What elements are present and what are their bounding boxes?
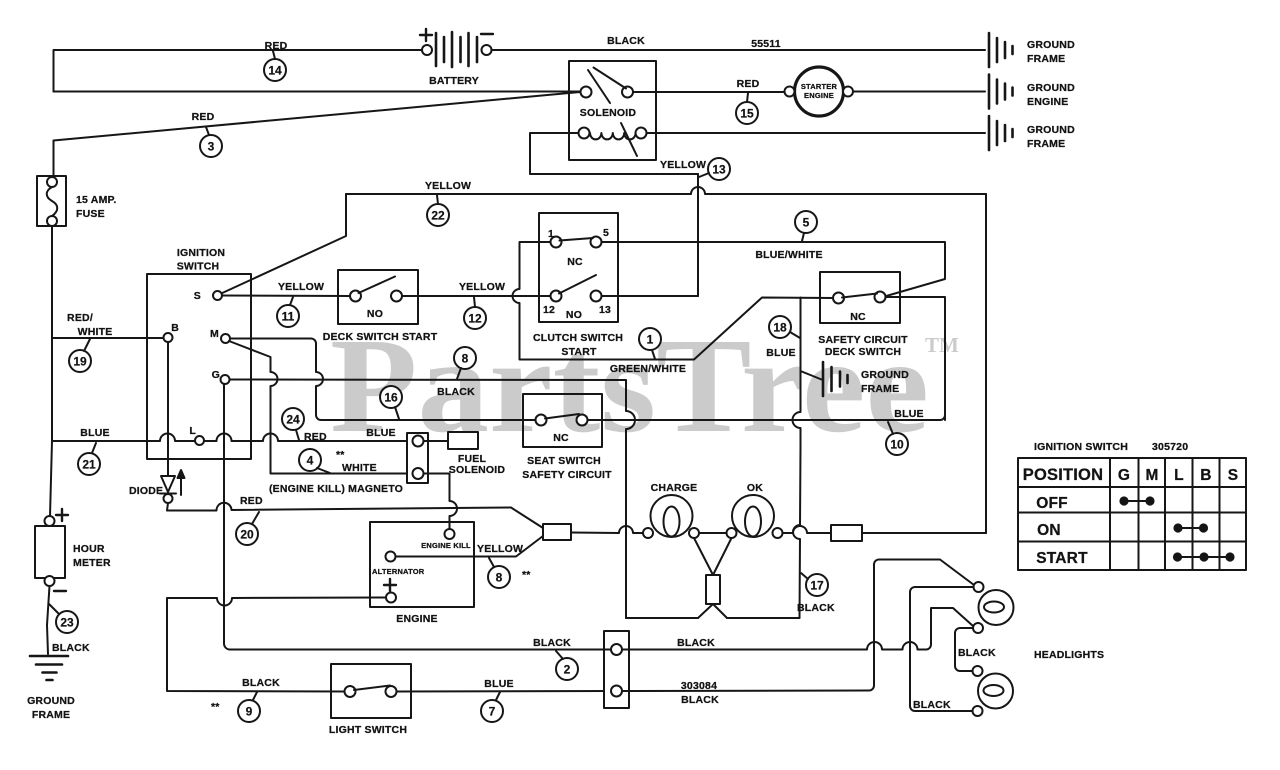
svg-text:18: 18 [773, 321, 787, 335]
svg-text:RED: RED [304, 431, 327, 443]
svg-text:13: 13 [712, 163, 726, 177]
svg-text:G: G [212, 369, 220, 381]
svg-text:ON: ON [1037, 522, 1061, 539]
wire yellow right vertical (to lamps) [985, 194, 987, 533]
svg-text:ENGINE: ENGINE [396, 613, 437, 625]
connector C (headlight harness) [604, 631, 629, 708]
svg-text:12: 12 [468, 312, 482, 326]
svg-text:GROUND: GROUND [27, 695, 75, 707]
wire RED 14 (battery + to left frame) [54, 50, 428, 92]
label circle 10 [886, 422, 908, 455]
svg-text:RED: RED [737, 78, 760, 90]
wire YELLOW 11 (S to deck switch) [222, 295, 350, 298]
svg-text:55511: 55511 [751, 38, 781, 50]
svg-text:5: 5 [803, 216, 810, 230]
svg-text:CHARGE: CHARGE [651, 482, 698, 494]
svg-text:M: M [210, 328, 219, 340]
svg-text:19: 19 [73, 355, 87, 369]
svg-text:23: 23 [60, 616, 74, 630]
svg-text:BLACK: BLACK [533, 637, 571, 649]
svg-text:START: START [561, 346, 597, 358]
svg-text:IGNITION SWITCH: IGNITION SWITCH [1034, 441, 1128, 453]
svg-text:8: 8 [496, 571, 503, 585]
wire alternator + (to left loop) [167, 598, 386, 692]
svg-text:BLACK: BLACK [52, 642, 90, 654]
svg-text:B: B [171, 322, 179, 334]
svg-text:NC: NC [850, 311, 866, 323]
label circle 24 [282, 408, 304, 440]
svg-text:**: ** [522, 569, 531, 581]
svg-text:WHITE: WHITE [78, 326, 113, 338]
hour meter [35, 509, 68, 591]
svg-text:FUSE: FUSE [76, 208, 105, 220]
solenoid [569, 61, 656, 160]
safety circuit deck switch [820, 272, 900, 323]
svg-text:17: 17 [810, 579, 824, 593]
wire solenoid coil to ground frame (right 3) [647, 132, 986, 134]
wire RED 15 (solenoid to starter) [633, 91, 784, 93]
svg-text:SOLENOID: SOLENOID [580, 107, 637, 119]
svg-text:BLACK: BLACK [677, 637, 715, 649]
svg-text:FRAME: FRAME [32, 709, 70, 721]
clutch switch [539, 213, 618, 322]
svg-text:B: B [1200, 467, 1211, 484]
svg-text:BLACK: BLACK [681, 694, 719, 706]
label circle 11 [277, 297, 299, 327]
wire RED 20 (diode to lamp connector) [167, 503, 543, 528]
svg-text:GROUND: GROUND [1027, 82, 1075, 94]
diode [160, 342, 185, 503]
label circle 2 [556, 651, 578, 680]
wire RED 24 / L row [146, 434, 413, 441]
label circle 23 [49, 604, 78, 633]
label circle 12 [464, 297, 486, 329]
svg-text:BLACK: BLACK [797, 602, 835, 614]
wire solenoid coil left loop [530, 133, 698, 174]
OK lamp [727, 495, 783, 538]
svg-text:RED: RED [192, 111, 215, 123]
svg-text:12: 12 [543, 304, 555, 316]
svg-text:ALTERNATOR: ALTERNATOR [372, 567, 425, 576]
svg-text:YELLOW: YELLOW [278, 281, 324, 293]
svg-text:M: M [1145, 467, 1158, 484]
svg-text:DECK SWITCH START: DECK SWITCH START [323, 331, 438, 343]
fuel solenoid [424, 432, 479, 449]
svg-text:RED/: RED/ [67, 312, 93, 324]
wire BLACK 2 (G drop and run to headlights) [224, 384, 973, 650]
wire BLUE 18 (to ground frame mid) [793, 298, 822, 448]
svg-text:ENGINE: ENGINE [1027, 96, 1068, 108]
svg-text:OK: OK [747, 482, 763, 494]
svg-text:1: 1 [548, 228, 554, 240]
wire BLACK 23 (hour meter to ground) [47, 586, 50, 654]
svg-text:BLUE: BLUE [366, 427, 395, 439]
wire YELLOW 12 (deck to clutch 12) [402, 295, 551, 297]
svg-text:ENGINE: ENGINE [804, 91, 834, 100]
svg-text:S: S [194, 290, 201, 302]
svg-text:SEAT SWITCH: SEAT SWITCH [527, 455, 601, 467]
wire YELLOW 13 (solenoid drop vertical) [697, 174, 699, 296]
svg-text:SAFETY CIRCUIT: SAFETY CIRCUIT [522, 469, 612, 481]
svg-text:YELLOW: YELLOW [425, 180, 471, 192]
wire RED 2row (left frame to solenoid) [54, 91, 581, 93]
fuse 15 AMP [37, 141, 66, 339]
svg-text:HEADLIGHTS: HEADLIGHTS [1034, 649, 1104, 661]
charge lamp [643, 495, 699, 538]
svg-text:FRAME: FRAME [1027, 138, 1065, 150]
svg-text:3: 3 [208, 140, 215, 154]
deck switch [338, 270, 418, 324]
ground frame (top right 1) [989, 33, 1013, 67]
wire lamp row (connector B to charge/OK/resistor) [571, 526, 986, 533]
watermark PartsTree [330, 311, 959, 461]
svg-text:10: 10 [890, 438, 904, 452]
light switch [331, 664, 411, 718]
table contacts START row [1174, 553, 1234, 560]
svg-text:BLACK: BLACK [958, 647, 996, 659]
label circle 17 [801, 573, 828, 596]
label circle 13 [699, 158, 730, 180]
label circle 8a [454, 347, 476, 379]
wire YELLOW 8 (alternator to connector) [396, 536, 544, 557]
label circle 1 [639, 328, 661, 359]
label circle 16 [380, 386, 402, 419]
svg-text:20: 20 [240, 528, 254, 542]
svg-text:BLUE/WHITE: BLUE/WHITE [755, 249, 822, 261]
label circle 4 [299, 449, 330, 473]
seat switch safety circuit [523, 394, 602, 447]
svg-text:1: 1 [647, 333, 654, 347]
connector A (2-pin) [407, 433, 428, 483]
svg-text:BLACK: BLACK [913, 699, 951, 711]
svg-text:**: ** [336, 449, 345, 461]
ground engine (right 2) [989, 75, 1013, 109]
label circle 15 [736, 93, 758, 124]
wire safety right terminal to blue loop [886, 297, 946, 420]
table contacts OFF row [1120, 497, 1153, 504]
ignition switch table [1018, 458, 1246, 570]
label circle 8b [488, 558, 510, 588]
svg-text:OFF: OFF [1036, 495, 1068, 512]
svg-text:NC: NC [567, 256, 583, 268]
svg-text:15 AMP.: 15 AMP. [76, 194, 117, 206]
label circle 7 [481, 692, 503, 722]
svg-text:LIGHT SWITCH: LIGHT SWITCH [329, 724, 407, 736]
svg-text:L: L [1174, 467, 1184, 484]
table contacts ON row [1174, 524, 1207, 531]
svg-text:WHITE: WHITE [342, 462, 377, 474]
ground frame (mid, safety) [823, 362, 848, 396]
wire starter to ground engine [853, 91, 985, 93]
wire BLUE/WHITE 5 [602, 242, 946, 297]
svg-text:11: 11 [282, 310, 295, 324]
svg-text:BLUE: BLUE [766, 347, 795, 359]
svg-text:ENGINE KILL: ENGINE KILL [421, 541, 471, 550]
svg-text:15: 15 [740, 107, 754, 121]
svg-text:BLACK: BLACK [607, 35, 645, 47]
svg-text:YELLOW: YELLOW [459, 281, 505, 293]
svg-text:NO: NO [367, 308, 383, 320]
wire clutch 13 to yellow vertical [602, 295, 699, 297]
svg-text:22: 22 [431, 209, 445, 223]
svg-text:7: 7 [489, 705, 496, 719]
svg-text:G: G [1118, 467, 1130, 484]
svg-text:METER: METER [73, 557, 111, 569]
svg-text:14: 14 [268, 64, 282, 78]
svg-text:21: 21 [82, 458, 96, 472]
svg-text:(ENGINE KILL) MAGNETO: (ENGINE KILL) MAGNETO [269, 483, 403, 495]
svg-text:GROUND: GROUND [861, 369, 909, 381]
wire BLACK 17 (ground to lamp rail) [793, 447, 801, 618]
wire BLUE 16 (M branch to seat switch and safety) [230, 339, 945, 421]
svg-text:L: L [189, 425, 196, 437]
svg-text:305720: 305720 [1152, 441, 1188, 453]
wire 303084 BLACK (to headlight top) [622, 560, 974, 692]
label circle 18 [769, 316, 800, 338]
wire YELLOW 22 (top yellow run) [219, 187, 986, 295]
wire BLUE 21 (left drop to hour meter) [50, 338, 146, 516]
label circle 21 [78, 443, 100, 475]
wire headlight jumper (hl1 bottom to hl2 top) [955, 628, 973, 671]
svg-text:16: 16 [384, 391, 398, 405]
svg-text:24: 24 [286, 413, 300, 427]
svg-text:HOUR: HOUR [73, 543, 105, 555]
svg-text:**: ** [211, 701, 220, 713]
svg-text:CLUTCH SWITCH: CLUTCH SWITCH [533, 332, 623, 344]
label circle 9 [238, 692, 260, 722]
svg-text:BLUE: BLUE [80, 427, 109, 439]
resistor R1 (horizontal) [831, 525, 862, 541]
label circle 19 [69, 339, 91, 372]
svg-text:YELLOW: YELLOW [477, 543, 523, 555]
headlight 2 [973, 666, 1014, 716]
svg-text:S: S [1228, 467, 1239, 484]
connector B (engine harness) [543, 524, 571, 540]
svg-text:GROUND: GROUND [1027, 39, 1075, 51]
svg-text:5: 5 [603, 227, 609, 239]
label circle 3 [200, 127, 222, 157]
starter engine [785, 67, 854, 116]
svg-text:9: 9 [246, 705, 253, 719]
wire RED/WHITE 19 [52, 337, 164, 339]
svg-text:BLACK: BLACK [437, 386, 475, 398]
svg-text:IGNITION: IGNITION [177, 247, 225, 259]
svg-text:8: 8 [462, 352, 469, 366]
svg-text:303084: 303084 [681, 680, 717, 692]
wire headlight jumper (hl2 bottom to hl1 top) [910, 587, 974, 711]
svg-text:BLUE: BLUE [484, 678, 513, 690]
svg-text:GREEN/WHITE: GREEN/WHITE [610, 363, 686, 375]
label circle 5 [795, 211, 817, 241]
svg-text:POSITION: POSITION [1023, 466, 1103, 484]
svg-text:GROUND: GROUND [1027, 124, 1075, 136]
wire lamp bottom rail [626, 617, 800, 619]
svg-text:BATTERY: BATTERY [429, 75, 479, 87]
ground frame (hour meter) [30, 656, 68, 680]
svg-text:DIODE: DIODE [129, 485, 163, 497]
wire RED 3 (fuse to solenoid diagonal) [54, 92, 581, 141]
svg-text:BLACK: BLACK [242, 677, 280, 689]
svg-text:NC: NC [553, 432, 569, 444]
svg-text:TM: TM [925, 333, 959, 357]
svg-text:RED: RED [240, 495, 263, 507]
label circle 22 [427, 195, 449, 226]
ignition switch box [147, 274, 251, 459]
label circle 20 [236, 512, 259, 545]
label circle 14 [264, 51, 286, 81]
wire BLACK 55511 (battery - to ground frame) [492, 49, 986, 51]
svg-text:START: START [1036, 550, 1088, 567]
engine box [370, 522, 474, 607]
headlight 1 [973, 582, 1014, 633]
svg-text:SWITCH: SWITCH [177, 261, 220, 273]
svg-text:DECK SWITCH: DECK SWITCH [825, 346, 901, 358]
wire BLACK 8 (ignition G run) [230, 380, 636, 619]
wire fuel/engine kill vertical [424, 474, 458, 530]
wire BLUE 7 (light switch to connector) [397, 690, 611, 693]
svg-text:NO: NO [566, 309, 582, 321]
svg-text:FRAME: FRAME [861, 383, 899, 395]
wire WHITE 4 (M to magneto connector) [229, 341, 413, 474]
svg-text:YELLOW: YELLOW [660, 159, 706, 171]
ground frame (right 3) [989, 116, 1013, 150]
svg-text:BLUE: BLUE [894, 408, 923, 420]
svg-text:FRAME: FRAME [1027, 53, 1065, 65]
svg-text:4: 4 [307, 454, 314, 468]
wire GREEN/WHITE 1 (clutch 1 to safety switch) [513, 242, 834, 360]
svg-text:RED: RED [265, 40, 288, 52]
svg-text:SAFETY CIRCUIT: SAFETY CIRCUIT [818, 334, 908, 346]
svg-text:13: 13 [599, 304, 611, 316]
battery [420, 29, 493, 67]
svg-text:STARTER: STARTER [801, 82, 838, 91]
svg-text:SOLENOID: SOLENOID [449, 464, 506, 476]
svg-text:2: 2 [564, 663, 571, 677]
resistor R2 (vertical) with diagonals [694, 538, 732, 618]
